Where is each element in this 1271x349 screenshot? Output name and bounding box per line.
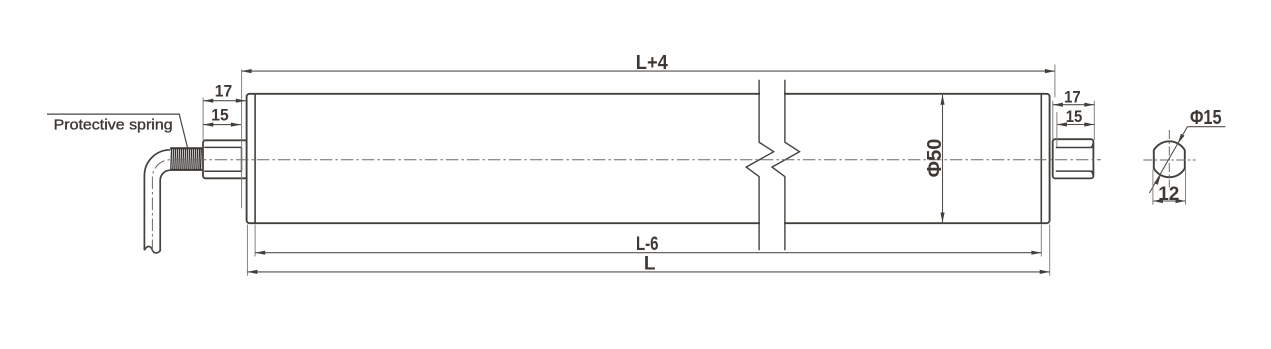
left shaft flat top line: [204, 146, 241, 148]
left shaft silhouette: [203, 140, 248, 178]
cable outer edge: [144, 150, 170, 250]
dim 17 right line: [1053, 104, 1094, 106]
dim 12 extension right: [1185, 170, 1187, 205]
dim L line: [247, 271, 1049, 273]
dim 17 left line: [203, 100, 246, 102]
right shaft flat bottom line: [1056, 170, 1091, 172]
dim 15 right arrows: [1057, 122, 1067, 126]
dim Phi50 arrows: [940, 95, 944, 105]
svg-text:15: 15: [211, 105, 228, 124]
dim Phi15 leader line: [1149, 127, 1225, 193]
svg-text:Φ50: Φ50: [924, 139, 946, 178]
protective spring coil hatch: [171, 148, 202, 169]
dim Phi15 arrow top: [1178, 134, 1185, 144]
dim 17 right extension right: [1093, 101, 1095, 140]
dim 15 left arrows: [203, 123, 213, 127]
left cap joint line: [254, 94, 256, 222]
dim 15 right line: [1057, 124, 1094, 126]
dim L extension right: [1049, 225, 1051, 276]
svg-text:17: 17: [215, 81, 232, 100]
svg-text:Φ15: Φ15: [1190, 107, 1222, 129]
left shaft flat bottom line: [204, 170, 241, 172]
dim L-6 line: [255, 252, 1041, 254]
cross-section shaft outline: [1154, 141, 1185, 177]
right shaft silhouette: [1053, 139, 1094, 178]
dim L+4 line: [242, 70, 1055, 72]
dim 12 extension left: [1152, 170, 1154, 205]
roller tube body: [247, 94, 1050, 223]
dim Phi15 arrow bottom: [1154, 175, 1161, 185]
break line left: [746, 80, 774, 251]
svg-text:L+4: L+4: [636, 52, 669, 74]
dim L-6 arrows: [255, 251, 265, 255]
break gap white-out: [760, 77, 784, 250]
cable inner edge: [160, 170, 170, 251]
break line right: [772, 80, 800, 251]
dim L+4 extension right: [1054, 65, 1056, 98]
right cap joint line: [1040, 94, 1042, 222]
svg-text:17: 17: [1064, 87, 1081, 106]
cable break end squiggle: [144, 246, 160, 253]
dim L+4 extension left: [241, 70, 243, 209]
dim 17 left arrows: [203, 99, 213, 103]
dim 12 line: [1153, 200, 1186, 202]
dim L arrows: [247, 270, 257, 274]
dim L-6 extension right: [1040, 225, 1042, 257]
right shaft end chamfer top: [1091, 144, 1094, 148]
left shaft flat end line: [241, 147, 243, 171]
svg-text:15: 15: [1066, 107, 1083, 126]
dim 17 right extension left: [1052, 101, 1054, 139]
right shaft end chamfer bottom: [1091, 171, 1094, 175]
dim 17 right arrows: [1053, 103, 1063, 107]
svg-text:12: 12: [1158, 184, 1179, 205]
dim Phi50 line: [942, 95, 944, 223]
protective spring label leader: [47, 114, 188, 148]
cross-section vertical center line: [1168, 130, 1170, 188]
dim L+4 arrows: [242, 69, 252, 73]
cross-section horizontal center line: [1143, 159, 1195, 161]
dim 12 arrows: [1153, 199, 1163, 203]
dim 17 left extension: [202, 98, 204, 141]
dim 15 right extension: [1056, 112, 1058, 147]
svg-text:Protective spring: Protective spring: [54, 117, 173, 133]
main center line: [152, 160, 1101, 252]
spring outline top/bottom: [170, 147, 202, 149]
svg-text:L-6: L-6: [636, 234, 659, 255]
svg-text:L: L: [644, 253, 656, 274]
dim L-6 extension left: [254, 225, 256, 257]
dim 15 left line: [203, 124, 241, 126]
right shaft flat top line: [1056, 147, 1091, 149]
dim L extension left: [246, 225, 248, 276]
